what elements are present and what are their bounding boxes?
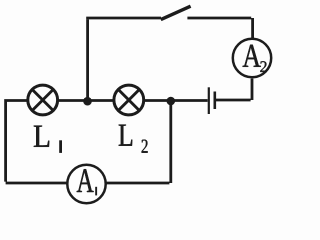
wire: middle from L2 to battery [145,99,208,102]
wire: middle between L1 and L2 [59,99,113,102]
wire: top rail left of switch [86,17,161,20]
wire: bottom-right run from A1 up to node B [106,101,170,183]
label L1: subscript 1 [59,140,62,153]
wire: left vertical + bottom-left run to A1 [6,101,67,184]
label L1: letter L [34,126,49,147]
lamp L1 (circle with X) [28,85,58,115]
ammeter A1 [67,165,105,203]
label L2: subscript 2 [142,140,148,153]
node B (junction dot) [167,97,176,106]
wire: top rail right of switch, down to A2 [187,18,252,38]
node A (junction dot) [83,97,92,106]
ammeter A1: subscript 1 [95,187,97,196]
ammeter A2 [233,39,271,77]
wire: vertical from node A up to top rail [86,19,89,101]
label L2: letter L [119,125,133,146]
ammeter A2: subscript 2 [260,61,266,72]
battery cell [209,87,215,114]
wire: battery to A2 bottom [216,79,252,100]
lamp L2 (circle with X) [114,85,144,115]
switch S (open blade) [161,6,191,19]
